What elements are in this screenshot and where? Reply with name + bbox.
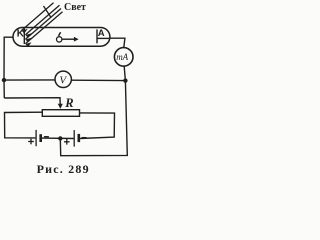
svg-text:Рис. 289: Рис. 289: [37, 162, 90, 176]
svg-text:R: R: [64, 96, 73, 110]
svg-text:mA: mA: [116, 52, 128, 62]
svg-text:A: A: [98, 28, 105, 39]
svg-text:Свет: Свет: [64, 2, 86, 13]
svg-text:K: K: [17, 28, 25, 39]
